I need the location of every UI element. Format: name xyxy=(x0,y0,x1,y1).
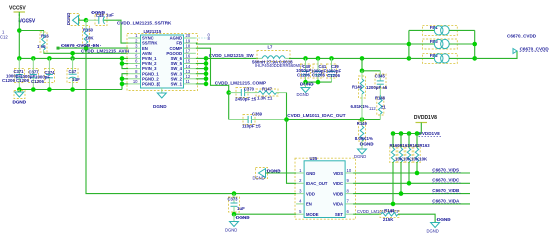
svg-text:R143: R143 xyxy=(384,208,395,213)
svg-text:CVDD_LM21215_AVIN: CVDD_LM21215_AVIN xyxy=(81,49,130,54)
svg-text:8.06K1%: 8.06K1% xyxy=(355,136,373,141)
net label DGND at C48 xyxy=(91,10,106,15)
resistor R149 xyxy=(355,120,373,147)
net label VCC5V xyxy=(18,19,36,25)
wire pullup rail xyxy=(393,133,421,135)
svg-text:10: 10 xyxy=(347,168,352,173)
wire VIDS xyxy=(353,172,470,174)
svg-text:2450pF ±5: 2450pF ±5 xyxy=(235,97,257,102)
resistor R148 xyxy=(351,95,387,120)
node SW junctions xyxy=(204,56,209,61)
svg-text:CVDD_LM21215_SW: CVDD_LM21215_SW xyxy=(209,53,255,58)
ground DGND under U1 xyxy=(153,93,167,109)
resistor R163 xyxy=(414,134,420,174)
svg-text:C6670_VIDB: C6670_VIDB xyxy=(432,188,460,193)
wire to R16 xyxy=(19,31,43,34)
svg-text:SET: SET xyxy=(335,212,344,217)
svg-text:R147: R147 xyxy=(262,86,273,91)
svg-text:11: 11 xyxy=(186,79,191,84)
resistor R146 xyxy=(352,71,366,120)
resistor R143 xyxy=(380,208,399,222)
svg-text:1200pF ±5: 1200pF ±5 xyxy=(366,85,388,90)
net label C6670_VIDB xyxy=(432,188,460,193)
wire bead left vertical xyxy=(408,30,410,58)
svg-text:C1206: C1206 xyxy=(16,78,29,83)
node C373 junction xyxy=(232,191,237,196)
capacitor C369 xyxy=(229,111,287,128)
wire AVIN from R16 xyxy=(44,52,129,54)
svg-text:C1206: C1206 xyxy=(297,72,310,77)
resistor R147 xyxy=(252,86,287,100)
svg-text:10K: 10K xyxy=(86,36,95,41)
svg-text:VIDB: VIDB xyxy=(333,191,343,196)
svg-text:C48: C48 xyxy=(96,13,104,18)
svg-text:C12: C12 xyxy=(0,35,8,40)
wire IDAC_OUT xyxy=(287,119,381,121)
svg-text:C6670_CVDD: C6670_CVDD xyxy=(520,46,550,51)
power symbol DVDD1V8 xyxy=(414,115,437,134)
wire EN xyxy=(59,47,129,49)
resistor R16 xyxy=(37,31,49,53)
resistor R162 xyxy=(406,134,412,184)
svg-text:DVDD1V8: DVDD1V8 xyxy=(414,115,437,121)
svg-text:10: 10 xyxy=(133,79,138,84)
svg-text:VCC5V: VCC5V xyxy=(19,19,36,25)
svg-text:GND: GND xyxy=(306,171,315,176)
wire SS/TRK xyxy=(116,20,141,43)
net label C6670_CVDD_EN xyxy=(61,43,101,48)
svg-text:R148: R148 xyxy=(375,95,386,100)
svg-text:C1206: C1206 xyxy=(31,79,44,84)
op-amp U1 regulator LM21215 xyxy=(127,29,198,93)
capacitor C41 xyxy=(313,58,327,82)
net label DVDD1V8 xyxy=(419,131,442,136)
wire CVDD output xyxy=(475,51,517,58)
wire COMP net vertical xyxy=(228,93,230,120)
pin stubs left xyxy=(128,38,140,84)
resistor R150 xyxy=(83,20,95,48)
svg-text:DGND: DGND xyxy=(297,92,309,97)
net label DGND R149 xyxy=(360,142,375,147)
svg-text:110pF ±5: 110pF ±5 xyxy=(242,124,261,129)
pin names left xyxy=(142,36,159,87)
wire long vertical to U25 VDD xyxy=(86,48,296,194)
svg-text:CVDD_LM21215_COMP: CVDD_LM21215_COMP xyxy=(215,81,266,86)
svg-text:±1: ±1 xyxy=(381,105,386,110)
svg-text:112: 112 xyxy=(369,106,376,111)
node rail junctions xyxy=(17,56,22,61)
svg-text:DGND: DGND xyxy=(253,176,265,181)
svg-text:IDAC_OUT: IDAC_OUT xyxy=(306,181,328,186)
svg-text:DGND: DGND xyxy=(225,228,237,233)
svg-text:C369: C369 xyxy=(252,111,263,116)
svg-text:C6670_VIDA: C6670_VIDA xyxy=(432,198,460,203)
svg-text:DVDD1V8: DVDD1V8 xyxy=(419,131,441,136)
svg-text:EN: EN xyxy=(306,202,312,207)
svg-text:VIDC: VIDC xyxy=(333,181,343,186)
svg-text:VDD: VDD xyxy=(306,191,315,196)
ground DGND C373 xyxy=(225,214,239,232)
svg-text:C1206: C1206 xyxy=(2,78,15,83)
svg-text:C6670_CVDD: C6670_CVDD xyxy=(507,34,537,39)
off-page connector C6670_CVDD xyxy=(507,34,537,54)
power symbol VCC5V xyxy=(9,6,26,17)
inductor L7 xyxy=(257,45,290,62)
ground DGND output bank xyxy=(297,82,311,97)
svg-text:R150: R150 xyxy=(83,28,94,33)
wire FB divider top xyxy=(361,58,363,70)
net label C6670_CVDD xyxy=(520,46,550,51)
resistor R161 xyxy=(398,134,404,194)
svg-text:DGND: DGND xyxy=(354,154,366,159)
svg-text:CVDD_LM1011_IDAC_OUT: CVDD_LM1011_IDAC_OUT xyxy=(287,113,345,118)
capacitor C40 xyxy=(301,58,311,82)
ground DGND SET xyxy=(427,223,440,234)
svg-text:C1206: C1206 xyxy=(312,73,325,78)
node C48 junction xyxy=(84,18,89,23)
wire FB long xyxy=(196,42,409,45)
capacitor C374 xyxy=(45,58,56,89)
wire SW to inductor xyxy=(206,57,258,59)
wire VIDC xyxy=(353,182,470,184)
wire VIDB xyxy=(353,193,470,195)
wire SET xyxy=(353,213,381,215)
wire R147 C369 right node xyxy=(286,93,288,120)
svg-text:1 ±5: 1 ±5 xyxy=(37,44,46,49)
pin numbers right 20-11 xyxy=(186,33,191,84)
svg-text:215K: 215K xyxy=(383,217,394,222)
node COMP junction xyxy=(226,90,231,95)
ground DGND left rail xyxy=(13,90,27,105)
net label DGND U25 pin1 xyxy=(267,168,282,173)
svg-text:R16: R16 xyxy=(41,34,49,39)
svg-text:1uF: 1uF xyxy=(237,206,245,211)
svg-text:1uF: 1uF xyxy=(106,13,114,18)
node VCC5V junction xyxy=(17,28,22,33)
svg-text:U25: U25 xyxy=(310,156,318,161)
capacitor C370 xyxy=(229,87,257,102)
wire output cap ground rail xyxy=(306,81,332,83)
svg-text:C373: C373 xyxy=(228,196,239,201)
svg-text:R149: R149 xyxy=(357,121,368,126)
svg-text:VIDA: VIDA xyxy=(333,202,343,207)
ground DGND R149 xyxy=(354,147,367,160)
wire IDAC to U25 pin2 xyxy=(287,120,297,184)
wire bottom ground rail xyxy=(19,89,122,91)
svg-text:6.81K1%: 6.81K1% xyxy=(351,104,369,109)
svg-text:21: 21 xyxy=(156,81,161,86)
wire SW bank vertical xyxy=(196,58,206,84)
ferrite bead FB3 xyxy=(409,39,475,49)
svg-text:C47: C47 xyxy=(69,69,77,74)
capacitor C47 xyxy=(67,58,80,89)
wire output rail xyxy=(289,57,409,59)
net label C6670_VIDC xyxy=(432,178,460,183)
svg-text:MODE: MODE xyxy=(306,212,319,217)
svg-text:C370: C370 xyxy=(244,87,255,92)
capacitor C377 xyxy=(29,58,40,89)
net label DGND SET xyxy=(437,217,452,222)
net label DGND output xyxy=(300,82,314,87)
net label C6670_VIDA xyxy=(432,198,460,203)
IC U25 xyxy=(295,156,356,219)
svg-text:10K10K10K10K: 10K10K10K10K xyxy=(395,156,428,161)
node AVIN to rail jog xyxy=(72,53,74,58)
pin names right xyxy=(166,36,182,87)
node EN junction xyxy=(84,46,89,51)
wire input top rail xyxy=(19,57,128,59)
capacitor C373 xyxy=(228,194,246,215)
wire VIDA xyxy=(353,203,470,205)
ground DGND flag at C48 xyxy=(66,13,86,26)
pin stubs right xyxy=(184,38,196,84)
svg-text:R146: R146 xyxy=(352,84,363,89)
svg-text:C345: C345 xyxy=(375,74,386,79)
capacitor C345 xyxy=(366,71,388,95)
pin numbers left 1-10 xyxy=(133,33,138,84)
no-connect AGND pin20 xyxy=(196,37,207,39)
svg-text:L7: L7 xyxy=(268,45,274,50)
svg-text:C6670_VIDC: C6670_VIDC xyxy=(432,178,460,183)
svg-text:VIDS: VIDS xyxy=(333,171,343,176)
svg-text:C6670_VIDS: C6670_VIDS xyxy=(432,167,459,172)
svg-text:DGND: DGND xyxy=(66,13,71,25)
net label DGND C373 xyxy=(236,215,251,220)
svg-text:LM21215: LM21215 xyxy=(144,29,162,34)
capacitor C371 xyxy=(14,58,25,89)
wire SET to ground xyxy=(398,214,435,222)
wire MODE to U25 pin5 xyxy=(234,213,296,215)
wire PGND bank vertical xyxy=(122,74,128,90)
capacitor C48 1uF xyxy=(86,13,116,26)
resistor R160 xyxy=(390,134,396,204)
svg-text:1.3K ±1: 1.3K ±1 xyxy=(257,96,273,101)
net label C6670_VIDS xyxy=(432,167,460,172)
svg-text:VCC5V: VCC5V xyxy=(9,6,26,12)
svg-text:DGND: DGND xyxy=(427,229,439,234)
ferrite bead FB2 xyxy=(409,53,475,63)
wire COMP xyxy=(196,48,229,92)
ferrite bead FB1 xyxy=(409,25,475,35)
capacitor C39 xyxy=(327,58,340,82)
wire VCC5V vertical xyxy=(18,14,20,58)
svg-text:SW_1: SW_1 xyxy=(171,82,183,87)
wire bead right vertical xyxy=(474,30,476,58)
svg-text:CVDD_LM21215_SS/TRK: CVDD_LM21215_SS/TRK xyxy=(117,21,172,26)
svg-text:DGND: DGND xyxy=(153,104,167,109)
svg-text:1uF: 1uF xyxy=(72,77,80,82)
wire PVIN bank vertical xyxy=(122,58,128,68)
ground DGND U25 pin1 xyxy=(253,168,297,181)
svg-text:R160R161R162R163: R160R161R162R163 xyxy=(390,143,431,148)
svg-text:C1206: C1206 xyxy=(327,73,340,78)
